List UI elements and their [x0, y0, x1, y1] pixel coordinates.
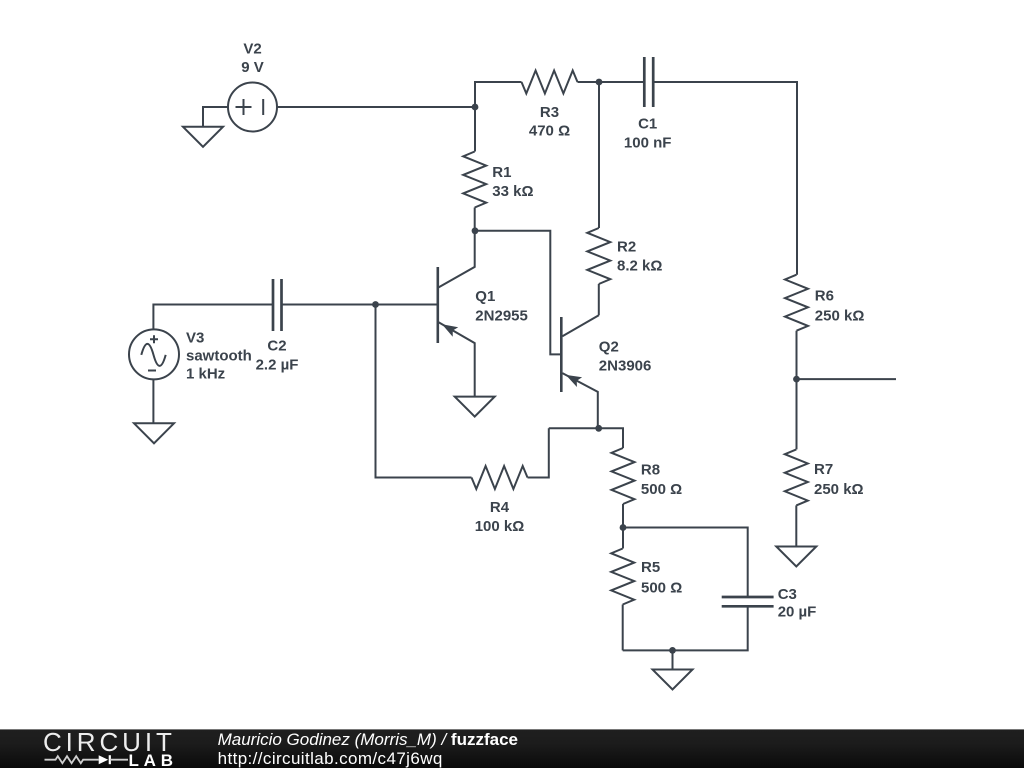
svg-text:R3: R3: [540, 104, 559, 121]
node junction R1/Q1 collector/Q2 base: [472, 227, 479, 234]
svg-text:1 kHz: 1 kHz: [186, 366, 225, 383]
ground (R7): [776, 547, 816, 567]
resistor R6: [785, 275, 808, 379]
wire V3 top to C2: [153, 305, 273, 330]
label R7 250k: [814, 461, 864, 498]
resistor R8: [612, 448, 635, 528]
resistor R4: [472, 466, 528, 489]
svg-text:V2: V2: [243, 41, 261, 58]
wire output: [797, 378, 897, 380]
ground (V2 negative terminal): [183, 107, 228, 147]
resistor R3: [522, 71, 578, 94]
ground (V3): [134, 423, 174, 443]
node junction R6/R7/output: [793, 376, 800, 383]
resistor R7: [785, 379, 808, 546]
svg-text:R7: R7: [814, 461, 833, 478]
svg-text:20 µF: 20 µF: [778, 604, 817, 621]
footer attribution text: [218, 730, 518, 768]
svg-text:R2: R2: [617, 239, 636, 256]
voltage source V3 sawtooth: [129, 329, 179, 379]
label R2 8.2k: [617, 239, 662, 275]
svg-text:C2: C2: [267, 338, 286, 355]
label C3 20uF: [778, 586, 817, 621]
footer bar: [0, 729, 1024, 768]
svg-text:V3: V3: [186, 329, 204, 346]
wire Q2 emitter node to R8: [549, 428, 623, 448]
svg-text:8.2 kΩ: 8.2 kΩ: [617, 257, 662, 274]
label Q2 2N3906: [599, 339, 652, 375]
voltage source V2: [228, 83, 277, 132]
svg-text:250 kΩ: 250 kΩ: [814, 481, 864, 498]
resistor R5: [611, 528, 634, 651]
resistor R2: [587, 82, 610, 315]
svg-text:100 kΩ: 100 kΩ: [475, 518, 525, 535]
capacitor C2: [273, 279, 282, 331]
node junction R5/C3/ground: [669, 647, 676, 654]
label R6 250k: [815, 288, 865, 325]
wire node to Q2 base: [475, 231, 560, 355]
svg-text:LAB: LAB: [129, 751, 178, 768]
label R4 100k: [475, 499, 525, 535]
wire R4 to emitter node: [528, 428, 549, 477]
svg-text:500 Ω: 500 Ω: [641, 580, 682, 597]
node junction Q2 emitter/R4/R8: [595, 425, 602, 432]
wire C3 bottom to ground node: [623, 606, 748, 650]
node junction C2/Q1 base/R4: [372, 301, 379, 308]
resistor R1: [463, 107, 486, 231]
ground (R5/C3): [653, 650, 693, 689]
svg-text:Q2: Q2: [599, 339, 619, 356]
node junction V2/R1/R3: [472, 104, 479, 111]
svg-text:R4: R4: [490, 499, 510, 516]
wire node up to top rail: [475, 82, 522, 107]
wire V2 to node at R1 top: [277, 106, 475, 108]
svg-text:470 Ω: 470 Ω: [529, 122, 570, 139]
capacitor C1: [644, 57, 653, 107]
svg-text:Q1: Q1: [475, 288, 495, 305]
CircuitLab logo: [43, 727, 178, 768]
label R3 470: [529, 104, 570, 139]
svg-text:http://circuitlab.com/c47j6wq: http://circuitlab.com/c47j6wq: [218, 749, 443, 768]
label V2 value: [241, 41, 264, 76]
label Q1 2N2955: [475, 288, 528, 325]
svg-text:500 Ω: 500 Ω: [641, 481, 682, 498]
wire C1 to right rail down to R6: [653, 82, 797, 275]
label R5 500: [641, 559, 682, 597]
node junction R8/R5/C3: [620, 524, 627, 531]
label C1 100nF: [624, 116, 672, 152]
svg-text:9 V: 9 V: [241, 59, 264, 76]
wire C2 to Q1 base: [282, 304, 437, 306]
svg-text:100 nF: 100 nF: [624, 134, 672, 151]
svg-text:sawtooth: sawtooth: [186, 348, 252, 365]
svg-text:2N2955: 2N2955: [475, 307, 528, 324]
label V3 sawtooth 1kHz: [186, 329, 252, 382]
wire R3 to C1: [578, 81, 645, 83]
svg-text:R6: R6: [815, 288, 834, 305]
label R1 33k: [492, 164, 533, 200]
node junction R3/C1/R2: [596, 79, 603, 86]
svg-text:C3: C3: [778, 586, 797, 603]
transistor Q1 2N2955: [438, 231, 475, 397]
svg-text:33 kΩ: 33 kΩ: [492, 183, 533, 200]
svg-text:2.2 µF: 2.2 µF: [256, 357, 299, 374]
svg-text:250 kΩ: 250 kΩ: [815, 307, 865, 324]
wire V3 bottom to ground: [152, 379, 154, 423]
svg-text:2N3906: 2N3906: [599, 357, 652, 374]
transistor Q2 2N3906: [561, 315, 599, 428]
label R8 500: [641, 462, 682, 498]
svg-text:C1: C1: [638, 116, 657, 133]
svg-text:R8: R8: [641, 462, 660, 479]
svg-text:R5: R5: [641, 559, 660, 576]
wire R8 node to C3 top: [623, 528, 748, 598]
wire node down to R4: [376, 305, 472, 478]
ground (Q1 emitter): [455, 397, 495, 417]
svg-text:Mauricio Godinez (Morris_M) /: Mauricio Godinez (Morris_M) / fuzzface: [218, 730, 518, 749]
label C2 2.2uF: [256, 338, 299, 374]
capacitor C3: [722, 597, 774, 606]
svg-text:R1: R1: [492, 164, 511, 181]
